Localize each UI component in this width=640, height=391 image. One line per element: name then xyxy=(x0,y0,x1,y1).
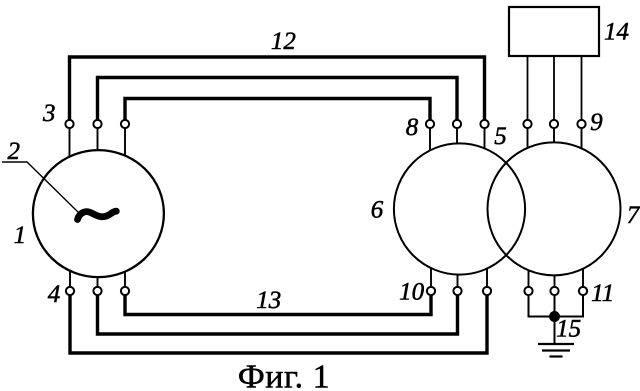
svg-text:Фиг. 1: Фиг. 1 xyxy=(238,359,330,391)
block 14 (rectangle) xyxy=(509,7,599,56)
wire bottom bus 13 (inner) xyxy=(125,294,431,315)
wire from neutral node 15 to ground xyxy=(554,317,556,344)
svg-text:4: 4 xyxy=(48,281,61,308)
terminal circles winding 7 top xyxy=(523,120,531,128)
terminal circles winding 6 top xyxy=(426,120,434,128)
wire stubs generator 1 bottom terminals xyxy=(69,266,71,288)
wire stubs winding 6 bottom terminals xyxy=(430,263,432,288)
svg-text:8: 8 xyxy=(406,114,419,141)
wire stubs winding 6 top terminals xyxy=(429,127,431,155)
wire stubs winding 7 top terminals xyxy=(527,127,529,154)
svg-text:7: 7 xyxy=(627,202,640,229)
svg-text:6: 6 xyxy=(371,197,384,224)
terminal circles winding 7 bottom xyxy=(524,287,532,295)
svg-text:1: 1 xyxy=(14,222,27,249)
winding 6 outline xyxy=(394,143,525,274)
winding 6 (circle) xyxy=(394,143,525,274)
svg-text:9: 9 xyxy=(590,109,603,136)
svg-text:5: 5 xyxy=(494,123,507,150)
winding 7 (circle) xyxy=(488,142,621,275)
wire stubs generator 1 top terminals xyxy=(69,127,71,162)
svg-text:2: 2 xyxy=(8,138,21,165)
terminal circles generator 1 top xyxy=(65,120,587,295)
wire top bus inner phase xyxy=(125,99,430,122)
svg-text:13: 13 xyxy=(256,287,281,314)
wire bottom bus middle xyxy=(98,294,458,334)
wire top bus middle phase xyxy=(98,78,458,122)
svg-text:3: 3 xyxy=(42,100,56,127)
leader line from label 2 to AC symbol xyxy=(2,162,78,212)
AC source symbol 2 (tilde inside generator) xyxy=(78,211,117,219)
svg-text:14: 14 xyxy=(604,19,629,46)
wire bottom bus outer xyxy=(70,294,487,353)
svg-text:10: 10 xyxy=(399,278,425,305)
wire neutral join of winding 7 bottom terminals xyxy=(529,294,584,317)
wire top bus 12 (phase A: gen left terminal to winding 6 right terminal) xyxy=(70,57,485,121)
svg-text:11: 11 xyxy=(591,280,614,307)
generator 1 (circle) xyxy=(33,150,164,277)
terminal circles winding 6 bottom xyxy=(427,287,435,295)
wire stubs winding 7 bottom terminals xyxy=(528,264,530,288)
ground symbol xyxy=(538,344,574,357)
svg-text:15: 15 xyxy=(556,316,581,343)
svg-text:12: 12 xyxy=(271,28,296,55)
junction node 15 (dot) xyxy=(549,311,560,322)
winding 7 outline xyxy=(488,142,621,275)
terminal circles generator 1 bottom xyxy=(66,287,74,295)
wire leads from block 14 to winding 7 top terminals xyxy=(527,56,529,121)
